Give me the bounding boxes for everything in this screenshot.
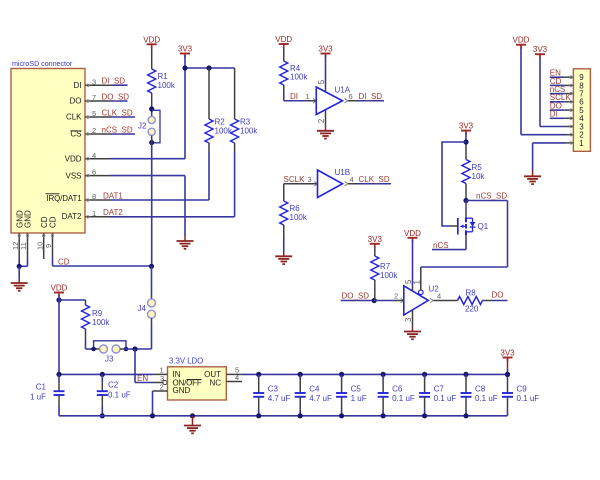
- power VDD for connector: [516, 44, 526, 46]
- microSD connector J1 body: [11, 69, 85, 234]
- svg-text:5: 5: [404, 279, 413, 284]
- svg-text:1 uF: 1 uF: [30, 393, 46, 402]
- svg-text:R6: R6: [290, 204, 301, 213]
- junction LDO GND wire at rail: [150, 413, 155, 418]
- ground for LDO rail: [184, 425, 201, 427]
- microSD pins 12 and 11 GND wires: [18, 233, 20, 258]
- svg-text:VDD: VDD: [143, 35, 160, 44]
- svg-text:3V3: 3V3: [318, 45, 333, 54]
- svg-text:SCLK: SCLK: [284, 175, 306, 184]
- microSD pin 1 wire + net label DAT2: [85, 216, 111, 218]
- wire R1 to J2: [151, 93, 153, 116]
- power VDD above R1: [147, 43, 157, 45]
- svg-text:4.7 uF: 4.7 uF: [268, 394, 291, 403]
- svg-text:GND: GND: [173, 386, 191, 395]
- junction EN net: [132, 346, 137, 351]
- svg-text:R8: R8: [466, 289, 477, 298]
- LDO pin 2 wire GND: [153, 390, 168, 392]
- svg-text:C2: C2: [108, 381, 119, 390]
- connector pin 9 wire + net label EN: [565, 76, 574, 78]
- svg-text:EN: EN: [137, 374, 148, 383]
- power VDD above R9: [54, 292, 64, 294]
- microSD pin 8 wire + net label DAT1: [85, 199, 111, 201]
- svg-text:CLK_SD: CLK_SD: [102, 108, 133, 117]
- svg-text:J3: J3: [105, 355, 114, 364]
- junction J2 bottom: [149, 140, 154, 145]
- microSD pin 4 VDD wire to 3V3 column: [85, 158, 111, 160]
- wire DO_SD to U2 input: [374, 300, 395, 302]
- svg-text:1 uF: 1 uF: [351, 394, 367, 403]
- svg-text:0.1 uF: 0.1 uF: [392, 394, 415, 403]
- svg-text:4: 4: [437, 292, 441, 301]
- wire nCS_SD + net label nCS_SD: [466, 200, 508, 202]
- 3V3 output rail: [241, 373, 507, 375]
- connector pin 8 wire + net label CD: [565, 84, 574, 86]
- svg-text:DO: DO: [492, 291, 504, 300]
- wire EN down to LDO pin 3 + net label EN: [134, 349, 136, 383]
- svg-text:100k: 100k: [290, 73, 308, 82]
- microSD pin 5 wire + net label CLK_SD: [85, 116, 111, 118]
- junction CD/J4 column: [149, 264, 154, 269]
- svg-text:2: 2: [317, 118, 326, 123]
- svg-text:2: 2: [160, 383, 164, 392]
- capacitor C6 0.1 uF: [381, 372, 386, 377]
- svg-text:DI: DI: [290, 92, 298, 101]
- junction R1/J2: [149, 106, 154, 111]
- connector pin 3 wire to 3V3: [565, 126, 573, 128]
- wire GND pins down to ground: [18, 266, 20, 278]
- svg-text:IRQ/DAT1: IRQ/DAT1: [46, 194, 82, 203]
- microSD pin 9 wire (CD): [52, 233, 54, 258]
- svg-text:100k: 100k: [158, 81, 176, 90]
- svg-text:100k: 100k: [92, 318, 110, 327]
- microSD pin 6 VSS wire: [85, 175, 111, 177]
- svg-text:DI: DI: [550, 110, 558, 119]
- resistor R2 100k pull-up DAT1: [208, 68, 210, 119]
- svg-text:J2: J2: [138, 122, 147, 131]
- svg-text:3V3: 3V3: [459, 122, 474, 131]
- svg-text:VDD: VDD: [51, 284, 68, 293]
- svg-text:C4: C4: [309, 384, 320, 393]
- junction C2 bottom: [100, 413, 105, 418]
- wire R7 to DO_SD: [374, 280, 376, 301]
- svg-text:R5: R5: [472, 163, 483, 172]
- wire rail to ground: [192, 416, 194, 426]
- svg-text:220: 220: [465, 305, 479, 314]
- svg-text:0.1 uF: 0.1 uF: [434, 394, 457, 403]
- junction C1 top: [56, 372, 61, 377]
- svg-text:5: 5: [317, 79, 326, 84]
- svg-text:R1: R1: [158, 72, 169, 81]
- svg-text:100k: 100k: [240, 127, 258, 136]
- svg-text:nCS: nCS: [433, 241, 449, 250]
- jumper J4 pads: [148, 299, 156, 307]
- resistor R7 100k: [374, 247, 376, 256]
- jumper J2: [148, 116, 155, 123]
- svg-text:VDD: VDD: [275, 35, 292, 44]
- svg-text:DO: DO: [70, 97, 82, 106]
- LDO pin 4 stub NC: [226, 381, 242, 383]
- svg-text:1: 1: [412, 280, 421, 285]
- jumper J3: [94, 341, 126, 349]
- svg-text:C5: C5: [351, 384, 362, 393]
- svg-text:4: 4: [235, 373, 239, 382]
- wire CD junction down to J4: [151, 266, 153, 294]
- svg-text:VSS: VSS: [65, 171, 81, 180]
- wire 3V3 to R5 and gate branch: [465, 133, 467, 144]
- svg-text:Q1: Q1: [478, 222, 489, 231]
- svg-text:6: 6: [349, 92, 353, 101]
- connector header body: [573, 69, 590, 152]
- U2 pin 3 to ground: [412, 310, 414, 328]
- svg-text:CD: CD: [58, 257, 70, 266]
- wire U2 enable pin 1 up: [420, 267, 422, 290]
- svg-text:3.3V LDO: 3.3V LDO: [169, 357, 203, 366]
- power VDD above R4: [279, 43, 289, 45]
- svg-text:3: 3: [160, 374, 164, 383]
- power 3V3 above R5: [461, 130, 471, 132]
- svg-text:100k: 100k: [215, 127, 233, 136]
- capacitor C8 0.1 uF: [463, 372, 468, 377]
- junction ground stem at rail: [190, 413, 195, 418]
- power 3V3 for connector: [535, 53, 545, 55]
- svg-text:1: 1: [306, 92, 310, 101]
- svg-text:R7: R7: [380, 262, 391, 271]
- connector pin 5 wire + net label DO: [565, 109, 574, 111]
- wire CD net to J4 column + net label CD: [53, 265, 152, 267]
- svg-text:C3: C3: [268, 384, 279, 393]
- svg-text:4.7 uF: 4.7 uF: [309, 394, 332, 403]
- svg-text:2: 2: [394, 292, 398, 301]
- LDO pin 1 wire IN: [153, 373, 168, 375]
- svg-text:R3: R3: [240, 118, 251, 127]
- junction C2 top: [100, 372, 105, 377]
- bottom ground rail: [59, 415, 508, 417]
- svg-text:11: 11: [19, 242, 28, 250]
- power 3V3 at output rail: [507, 368, 509, 374]
- resistor R9 100k: [85, 300, 87, 305]
- junction GND pins: [17, 264, 22, 269]
- microSD pin 7 wire + net label DO_SD: [85, 100, 111, 102]
- capacitor C5 1 uF: [339, 372, 344, 377]
- wire 3V3 rail to R2/R3: [185, 67, 235, 69]
- ground for connector pin 1: [524, 175, 541, 177]
- svg-text:C1: C1: [36, 383, 47, 392]
- power 3V3 above R7: [370, 243, 380, 245]
- microSD pin 3 wire + net label DI_SD: [85, 84, 111, 86]
- svg-text:5: 5: [92, 109, 96, 118]
- svg-text:100k: 100k: [380, 271, 398, 280]
- svg-text:DI: DI: [74, 81, 82, 90]
- U1A pin 2 to ground: [325, 110, 327, 127]
- svg-text:VDD: VDD: [404, 229, 421, 238]
- svg-text:CLK: CLK: [66, 113, 82, 122]
- microSD pin 2 wire + net label nCS_SD: [85, 133, 111, 135]
- svg-text:DO_SD: DO_SD: [102, 92, 130, 101]
- connector pin 7 wire + net label nCS: [565, 93, 574, 95]
- svg-text:1: 1: [92, 209, 96, 218]
- ground for U1A: [317, 130, 334, 132]
- svg-text:GND: GND: [24, 210, 33, 228]
- svg-text:C6: C6: [392, 384, 403, 393]
- wire R6 to ground: [283, 225, 285, 235]
- svg-text:U1B: U1B: [335, 168, 351, 177]
- U2 output pin 4 wire: [430, 298, 433, 302]
- svg-text:DAT2: DAT2: [103, 208, 123, 217]
- wire R5 to nCS_SD node: [465, 184, 467, 201]
- svg-text:DI_SD: DI_SD: [359, 92, 383, 101]
- wire VDD rail to LDO IN: [59, 373, 153, 375]
- svg-text:C7: C7: [434, 384, 445, 393]
- connector pin 1 wire to ground: [565, 142, 573, 144]
- svg-text:3V3: 3V3: [500, 349, 515, 358]
- svg-text:0.1 uF: 0.1 uF: [517, 394, 540, 403]
- svg-text:C9: C9: [517, 384, 528, 393]
- svg-text:CD: CD: [49, 216, 58, 228]
- svg-text:NC: NC: [209, 379, 221, 388]
- wire R3 to DAT2 row: [234, 143, 236, 151]
- svg-text:10k: 10k: [472, 172, 486, 181]
- transistor Q1 (P-MOSFET): [465, 201, 467, 212]
- capacitor C2 0.1 uF: [101, 374, 103, 382]
- wire Q1 source to nCS label: [465, 235, 467, 241]
- connector pin 2 wire to VDD: [565, 134, 573, 136]
- U2 enable circle pin 1: [419, 290, 424, 295]
- junction R2 top: [206, 65, 211, 70]
- wire VDD to U2 pin 5: [412, 240, 414, 285]
- resistor R4 100k: [280, 61, 288, 85]
- junction 3V3 rail at column: [182, 65, 187, 70]
- svg-text:3V3: 3V3: [178, 45, 193, 54]
- svg-text:7: 7: [92, 93, 96, 102]
- U1A output wire + net label DI_SD: [345, 99, 348, 103]
- ground for R6: [275, 255, 292, 257]
- junction R7/DO_SD: [372, 298, 377, 303]
- wire gate branch left-down to Q1 gate: [442, 142, 466, 226]
- U1B output wire + net label CLK_SD: [345, 182, 348, 186]
- svg-text:3V3: 3V3: [533, 45, 548, 54]
- power VDD above U2 pin 5: [408, 237, 418, 239]
- capacitor C1 1 uF: [58, 374, 60, 382]
- resistor R8 220: [458, 297, 483, 305]
- junction 3V3 riser: [505, 372, 510, 377]
- wire 3V3 down to microSD VDD pin row: [184, 55, 186, 159]
- svg-text:R2: R2: [215, 118, 226, 127]
- resistor R6 100k pulldown: [283, 184, 285, 201]
- svg-text:CLK_SD: CLK_SD: [359, 175, 390, 184]
- svg-text:DAT2: DAT2: [62, 212, 82, 221]
- LDO pin 5 wire OUT: [226, 373, 241, 375]
- svg-text:4: 4: [350, 175, 354, 184]
- power 3V3 for U1A pin 5: [321, 53, 331, 55]
- svg-text:VDD: VDD: [513, 36, 530, 45]
- wire R2 to DAT1 row: [208, 143, 210, 151]
- svg-text:0.1 uF: 0.1 uF: [108, 391, 131, 400]
- resistor R5 10k: [462, 160, 470, 184]
- wire R4 to U1A input + net label DI: [283, 85, 285, 93]
- svg-text:nCS_SD: nCS_SD: [476, 192, 507, 201]
- svg-text:2: 2: [92, 126, 96, 135]
- svg-text:3: 3: [308, 175, 312, 184]
- svg-text:DAT1: DAT1: [103, 191, 123, 200]
- svg-text:3: 3: [92, 77, 96, 86]
- wire J4 down and left to EN junction: [151, 318, 153, 323]
- svg-text:nCS_SD: nCS_SD: [102, 125, 133, 134]
- svg-text:DO_SD: DO_SD: [342, 292, 370, 301]
- op-amp buffer U1B: [318, 170, 343, 198]
- wire SCLK input + net label SCLK: [284, 183, 308, 185]
- connector pin 6 wire + net label SCLK: [565, 101, 574, 103]
- wire VDD to R4: [283, 47, 285, 61]
- resistor R3 100k pull-up DAT2: [234, 68, 236, 119]
- svg-text:3: 3: [404, 317, 413, 322]
- wire nCS_SD down to U2 enable: [507, 201, 509, 268]
- svg-text:microSD connector: microSD connector: [12, 59, 73, 68]
- svg-text:8: 8: [92, 192, 96, 201]
- svg-text:C8: C8: [475, 384, 486, 393]
- connector pin 4 wire + net label DI: [565, 117, 574, 119]
- power 3V3 above rail: [180, 53, 190, 55]
- VSS wire down to ground: [184, 176, 186, 236]
- svg-text:J4: J4: [138, 304, 147, 313]
- resistor R1 100k: [148, 69, 156, 93]
- svg-text:100k: 100k: [290, 213, 308, 222]
- svg-text:R9: R9: [92, 309, 103, 318]
- microSD pin 10 stub (CD): [43, 233, 45, 259]
- svg-text:6: 6: [92, 168, 96, 177]
- voltage regulator U3 3.3V LDO body: [168, 367, 227, 400]
- op-amp buffer U2 (tri-state): [404, 286, 429, 315]
- svg-text:9: 9: [44, 244, 53, 248]
- ground for microSD GND pins: [11, 282, 28, 284]
- svg-text:3V3: 3V3: [368, 235, 383, 244]
- capacitor C9 0.1 uF: [505, 372, 510, 377]
- wire R9 to J3: [85, 329, 87, 340]
- svg-text:DI_SD: DI_SD: [102, 77, 126, 86]
- capacitor C3 4.7 uF: [256, 372, 261, 377]
- svg-text:1: 1: [579, 139, 584, 148]
- svg-text:4: 4: [92, 151, 96, 160]
- wire J2 down to CD junction: [151, 135, 153, 146]
- wire J3 to EN junction: [120, 348, 124, 350]
- wire R8 to DO + net label DO: [483, 300, 492, 302]
- junction VDD branch: [56, 297, 61, 302]
- junction nCS_SD node: [463, 198, 468, 203]
- junction 3V3/gate branch: [463, 139, 468, 144]
- capacitor C7 0.1 uF: [422, 372, 427, 377]
- capacitor C4 4.7 uF: [298, 372, 303, 377]
- svg-text:0.1 uF: 0.1 uF: [475, 394, 498, 403]
- wire VDD branch to R9: [58, 295, 60, 375]
- op-amp buffer U1A: [316, 87, 342, 115]
- wire VDD to R1: [151, 47, 153, 69]
- wire 3V3 to U1A pin 5: [325, 55, 327, 84]
- LDO pin 3 inversion circle: [163, 380, 167, 384]
- svg-text:VDD: VDD: [65, 155, 82, 164]
- ground for U2: [404, 331, 421, 333]
- ground for VSS: [177, 240, 194, 242]
- wire DO_SD + net label DO_SD: [341, 300, 374, 302]
- svg-text:CD: CD: [40, 216, 49, 228]
